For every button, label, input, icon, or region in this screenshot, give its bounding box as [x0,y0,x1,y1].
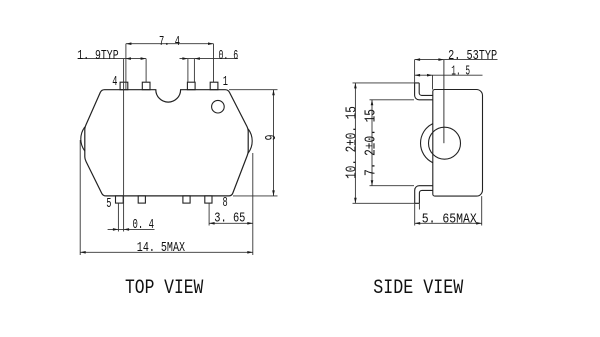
svg-text:8: 8 [223,195,228,211]
svg-text:0. 4: 0. 4 [133,217,155,233]
svg-text:SIDE VIEW: SIDE VIEW [373,277,463,300]
svg-text:10. 2±0. 15: 10. 2±0. 15 [343,106,361,179]
svg-text:0. 6: 0. 6 [219,48,239,64]
svg-text:3. 65: 3. 65 [214,211,245,227]
svg-text:5. 65MAX: 5. 65MAX [422,211,478,227]
svg-text:5: 5 [106,196,111,212]
svg-text:4: 4 [112,74,117,90]
svg-text:1: 1 [223,74,228,90]
svg-text:7. 2±0. 15: 7. 2±0. 15 [362,109,380,176]
svg-text:2. 53TYP: 2. 53TYP [448,48,497,64]
svg-text:9: 9 [262,135,280,141]
svg-text:1. 9TYP: 1. 9TYP [77,48,118,64]
svg-text:7. 4: 7. 4 [159,34,180,50]
svg-text:1. 5: 1. 5 [451,64,470,80]
svg-text:TOP VIEW: TOP VIEW [125,277,203,300]
svg-text:14. 5MAX: 14. 5MAX [137,240,186,256]
